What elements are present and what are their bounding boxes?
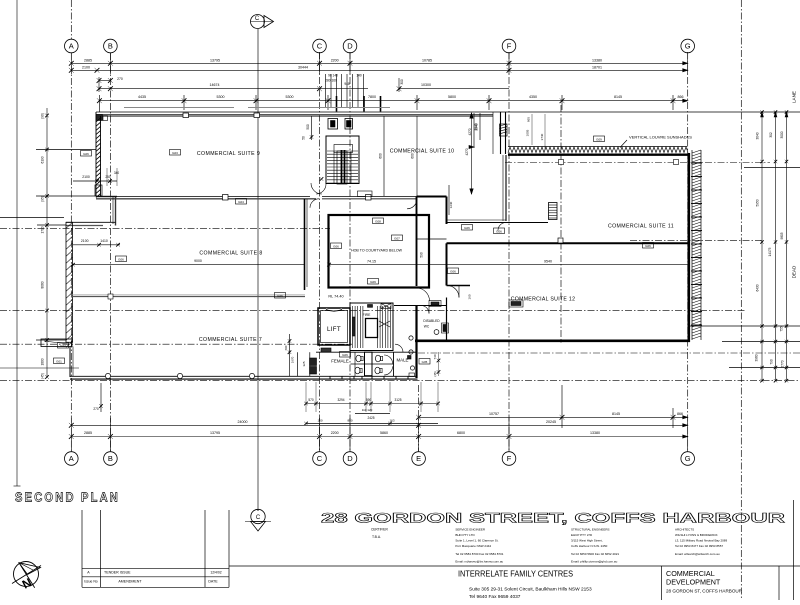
svg-text:RL 74.40: RL 74.40 (328, 295, 343, 299)
svg-text:A: A (69, 454, 74, 463)
svg-text:G06: G06 (464, 226, 470, 230)
svg-text:2940: 2940 (475, 123, 479, 130)
svg-text:FEMALE: FEMALE (331, 359, 349, 364)
svg-text:9000: 9000 (194, 259, 202, 263)
svg-text:2770: 2770 (781, 360, 785, 367)
svg-text:LANE: LANE (792, 91, 797, 103)
svg-text:Issue No: Issue No (84, 579, 97, 583)
svg-text:2100: 2100 (82, 65, 90, 69)
svg-text:2885: 2885 (84, 58, 92, 62)
svg-text:G: G (685, 42, 691, 51)
svg-text:Coffs Harbour N.S.W. 2450: Coffs Harbour N.S.W. 2450 (571, 544, 608, 548)
svg-text:G07: G07 (394, 236, 400, 240)
svg-text:TENDER ISSUE: TENDER ISSUE (104, 571, 131, 575)
svg-text:3040: 3040 (756, 132, 760, 139)
svg-text:4270: 4270 (465, 148, 469, 155)
svg-text:4350: 4350 (529, 95, 537, 99)
svg-text:C: C (256, 515, 261, 521)
svg-text:2885: 2885 (84, 431, 92, 435)
svg-text:G06: G06 (118, 257, 124, 261)
svg-text:3740: 3740 (540, 133, 544, 140)
svg-text:4435: 4435 (138, 95, 146, 99)
svg-text:9540: 9540 (544, 259, 552, 263)
svg-text:1410: 1410 (100, 239, 108, 243)
svg-text:C: C (317, 42, 323, 51)
svg-text:90 140: 90 140 (328, 74, 338, 78)
svg-text:325: 325 (302, 361, 306, 366)
svg-text:G06: G06 (83, 152, 89, 156)
svg-text:F: F (507, 454, 512, 463)
svg-text:Email: wilsarch@wilsarch.com.a: Email: wilsarch@wilsarch.com.au (675, 552, 720, 556)
svg-text:14674: 14674 (210, 83, 220, 87)
svg-text:DEVELOPMENT: DEVELOPMENT (666, 578, 721, 587)
svg-text:10785: 10785 (422, 58, 432, 62)
svg-text:74.15: 74.15 (367, 260, 376, 264)
svg-text:590: 590 (420, 252, 424, 258)
svg-text:7800: 7800 (368, 95, 376, 99)
svg-text:13795: 13795 (210, 58, 220, 62)
svg-text:340: 340 (114, 171, 120, 175)
svg-text:3125: 3125 (394, 398, 401, 402)
svg-text:COMMERCIAL SUITE 10: COMMERCIAL SUITE 10 (390, 148, 455, 154)
svg-text:140: 140 (356, 74, 362, 78)
svg-text:18701: 18701 (592, 65, 602, 69)
svg-text:LIFT: LIFT (327, 326, 341, 333)
svg-text:1240: 1240 (449, 201, 453, 208)
svg-text:B: B (108, 454, 113, 463)
svg-text:2200: 2200 (331, 431, 339, 435)
svg-text:600: 600 (284, 345, 288, 350)
svg-text:(95): (95) (41, 196, 45, 202)
svg-text:866: 866 (678, 95, 684, 99)
svg-text:6190: 6190 (41, 156, 45, 163)
svg-text:110 120: 110 120 (362, 408, 373, 412)
svg-text:6800: 6800 (457, 431, 465, 435)
svg-text:50: 50 (302, 136, 306, 140)
svg-text:G06: G06 (333, 244, 339, 248)
svg-text:500: 500 (306, 124, 310, 130)
svg-text:VERTICAL LOUVRE SUNSHADES: VERTICAL LOUVRE SUNSHADES (629, 134, 692, 139)
svg-text:2100: 2100 (81, 239, 89, 243)
svg-text:MALE: MALE (397, 358, 409, 363)
svg-text:755: 755 (780, 326, 784, 332)
svg-text:WILSHI LYONS & BRODERICK: WILSHI LYONS & BRODERICK (675, 533, 718, 537)
svg-text:WC: WC (424, 325, 430, 329)
svg-text:G05: G05 (422, 360, 428, 364)
svg-text:G02: G02 (60, 344, 66, 348)
svg-text:1710: 1710 (41, 226, 45, 233)
svg-text:COMMERCIAL SUITE 7: COMMERCIAL SUITE 7 (199, 337, 262, 343)
svg-text:3/115 West High Street,: 3/115 West High Street, (571, 539, 603, 543)
svg-text:6430: 6430 (756, 284, 760, 291)
svg-text:Suite 305 29-31 Solent Circuit: Suite 305 29-31 Solent Circuit, Baulkham… (469, 587, 592, 593)
svg-text:ARCHITECTS: ARCHITECTS (675, 528, 694, 532)
svg-text:160: 160 (468, 294, 472, 299)
svg-text:G03: G03 (172, 151, 178, 155)
svg-text:570: 570 (308, 398, 314, 402)
svg-text:DEAD: DEAD (792, 265, 797, 278)
svg-text:3960: 3960 (755, 354, 759, 361)
svg-text:SERVICE ENGINEER: SERVICE ENGINEER (455, 528, 485, 532)
svg-text:G04: G04 (238, 200, 244, 204)
svg-text:Tel 02 9953 8477 Fax 02 995: Tel 02 9953 8477 Fax 02 9953 8557 (675, 544, 723, 548)
svg-text:COMMERCIAL SUITE 9: COMMERCIAL SUITE 9 (197, 151, 260, 157)
svg-text:G06: G06 (450, 269, 456, 273)
svg-text:10757: 10757 (489, 412, 499, 416)
svg-text:G08: G08 (375, 219, 381, 223)
svg-text:30444: 30444 (298, 65, 308, 69)
svg-text:20245: 20245 (546, 420, 556, 424)
svg-text:AMENDMENT: AMENDMENT (118, 579, 142, 583)
svg-text:270: 270 (93, 407, 99, 411)
svg-text:(45): (45) (41, 373, 45, 379)
svg-text:948: 948 (344, 82, 350, 86)
svg-text:8145: 8145 (612, 412, 620, 416)
svg-text:G09: G09 (370, 280, 376, 284)
svg-text:5950: 5950 (756, 199, 760, 206)
svg-text:9805: 9805 (780, 232, 784, 239)
svg-text:F: F (507, 42, 512, 51)
svg-text:INTERRELATE FAMILY CENTRES: INTERRELATE FAMILY CENTRES (458, 570, 573, 579)
svg-text:24000: 24000 (238, 420, 248, 424)
svg-text:740: 740 (433, 354, 437, 359)
svg-text:G06: G06 (277, 294, 283, 298)
svg-text:5300: 5300 (286, 95, 294, 99)
svg-text:250: 250 (105, 175, 111, 179)
svg-text:A: A (69, 42, 74, 51)
svg-text:865: 865 (527, 117, 531, 122)
svg-text:1800: 1800 (41, 358, 45, 365)
svg-text:C: C (255, 16, 260, 22)
svg-text:5860: 5860 (380, 431, 388, 435)
svg-text:163: 163 (389, 419, 394, 423)
svg-text:3000: 3000 (780, 131, 784, 138)
svg-text:COMMERCIAL SUITE 8: COMMERCIAL SUITE 8 (199, 251, 262, 257)
svg-text:28 GORDON STREET, COFFS HA: 28 GORDON STREET, COFFS HARBOUR (321, 510, 785, 526)
svg-text:14175: 14175 (768, 247, 772, 256)
svg-text:DATE: DATE (208, 579, 218, 583)
svg-text:12/4/02: 12/4/02 (210, 571, 221, 575)
svg-text:Email: phillip.utzman@ghd.com.: Email: phillip.utzman@ghd.com.au (571, 560, 618, 564)
svg-text:10300: 10300 (421, 83, 431, 87)
svg-text:600: 600 (379, 153, 383, 159)
svg-text:STRUCTURAL ENGINEERS: STRUCTURAL ENGINEERS (571, 528, 610, 532)
svg-text:(90): (90) (41, 113, 45, 119)
svg-text:302: 302 (769, 132, 773, 138)
svg-text:E: E (416, 454, 421, 463)
svg-text:BHD PTY LTD: BHD PTY LTD (455, 533, 475, 537)
svg-text:D: D (347, 42, 353, 51)
svg-text:COMMERCIAL SUITE 12: COMMERCIAL SUITE 12 (511, 297, 576, 303)
svg-text:T.B.A.: T.B.A. (372, 535, 381, 539)
svg-text:G06: G06 (496, 229, 502, 233)
svg-text:8060: 8060 (41, 281, 45, 288)
svg-text:DISABLED: DISABLED (423, 319, 440, 323)
svg-text:5300: 5300 (217, 95, 225, 99)
svg-text:5800: 5800 (448, 95, 456, 99)
svg-text:1670: 1670 (291, 356, 295, 363)
svg-text:Email: mjharvey@bs.harvey.com.: Email: mjharvey@bs.harvey.com.au (455, 560, 503, 564)
svg-text:Port Macquarie NSW 2444: Port Macquarie NSW 2444 (455, 544, 491, 548)
svg-text:13795: 13795 (210, 431, 220, 435)
svg-text:2100: 2100 (82, 175, 90, 179)
svg-text:28 GORDON ST, COFFS HARBOUR: 28 GORDON ST, COFFS HARBOUR (666, 589, 743, 594)
svg-text:13380: 13380 (592, 58, 602, 62)
svg-text:SECOND PLAN: SECOND PLAN (15, 491, 120, 505)
svg-text:(45): (45) (433, 371, 437, 376)
svg-text:13380: 13380 (590, 431, 600, 435)
svg-text:G09: G09 (596, 137, 602, 141)
svg-text:100: 100 (317, 419, 322, 423)
svg-text:300: 300 (400, 79, 404, 85)
svg-text:270: 270 (117, 77, 123, 81)
svg-text:G06: G06 (645, 244, 651, 248)
svg-text:D: D (347, 454, 353, 463)
svg-text:B: B (108, 42, 113, 51)
svg-text:EHCP PTY LTD: EHCP PTY LTD (571, 533, 593, 537)
svg-text:G01: G01 (56, 359, 62, 363)
svg-text:Tel 02 6650 5600 Fax 02 6652: Tel 02 6650 5600 Fax 02 6652 4021 (571, 552, 619, 556)
svg-text:Tel 9640 Fax 9659 4037: Tel 9640 Fax 9659 4037 (469, 594, 521, 600)
svg-text:COMMERCIAL SUITE 11: COMMERCIAL SUITE 11 (608, 224, 674, 230)
svg-text:2425: 2425 (367, 416, 374, 420)
svg-text:FIRE: FIRE (363, 313, 371, 317)
svg-text:590: 590 (366, 398, 372, 402)
svg-text:4270: 4270 (468, 128, 472, 135)
svg-text:790: 790 (770, 359, 774, 365)
svg-text:1005: 1005 (526, 129, 530, 136)
svg-text:8145: 8145 (614, 95, 622, 99)
svg-text:Suite 1, Level 1, 60 Clarence: Suite 1, Level 1, 60 Clarence St. (455, 539, 498, 543)
svg-text:G: G (685, 454, 691, 463)
svg-text:L3, 115 Military Road Neutral: L3, 115 Military Road Neutral Bay 2089 (675, 539, 727, 543)
svg-text:866: 866 (677, 412, 683, 416)
svg-text:2200: 2200 (331, 58, 339, 62)
svg-text:3294: 3294 (337, 398, 344, 402)
svg-text:HOB TO COURTYARD BELOW: HOB TO COURTYARD BELOW (351, 249, 403, 253)
svg-text:CERTIFIER: CERTIFIER (371, 528, 388, 532)
svg-text:G06: G06 (342, 353, 348, 357)
svg-text:280 160: 280 160 (325, 79, 337, 83)
svg-text:C: C (317, 454, 323, 463)
svg-text:Tel 02 6584 8700 Fax 02 658: Tel 02 6584 8700 Fax 02 6584 8701 (455, 552, 503, 556)
